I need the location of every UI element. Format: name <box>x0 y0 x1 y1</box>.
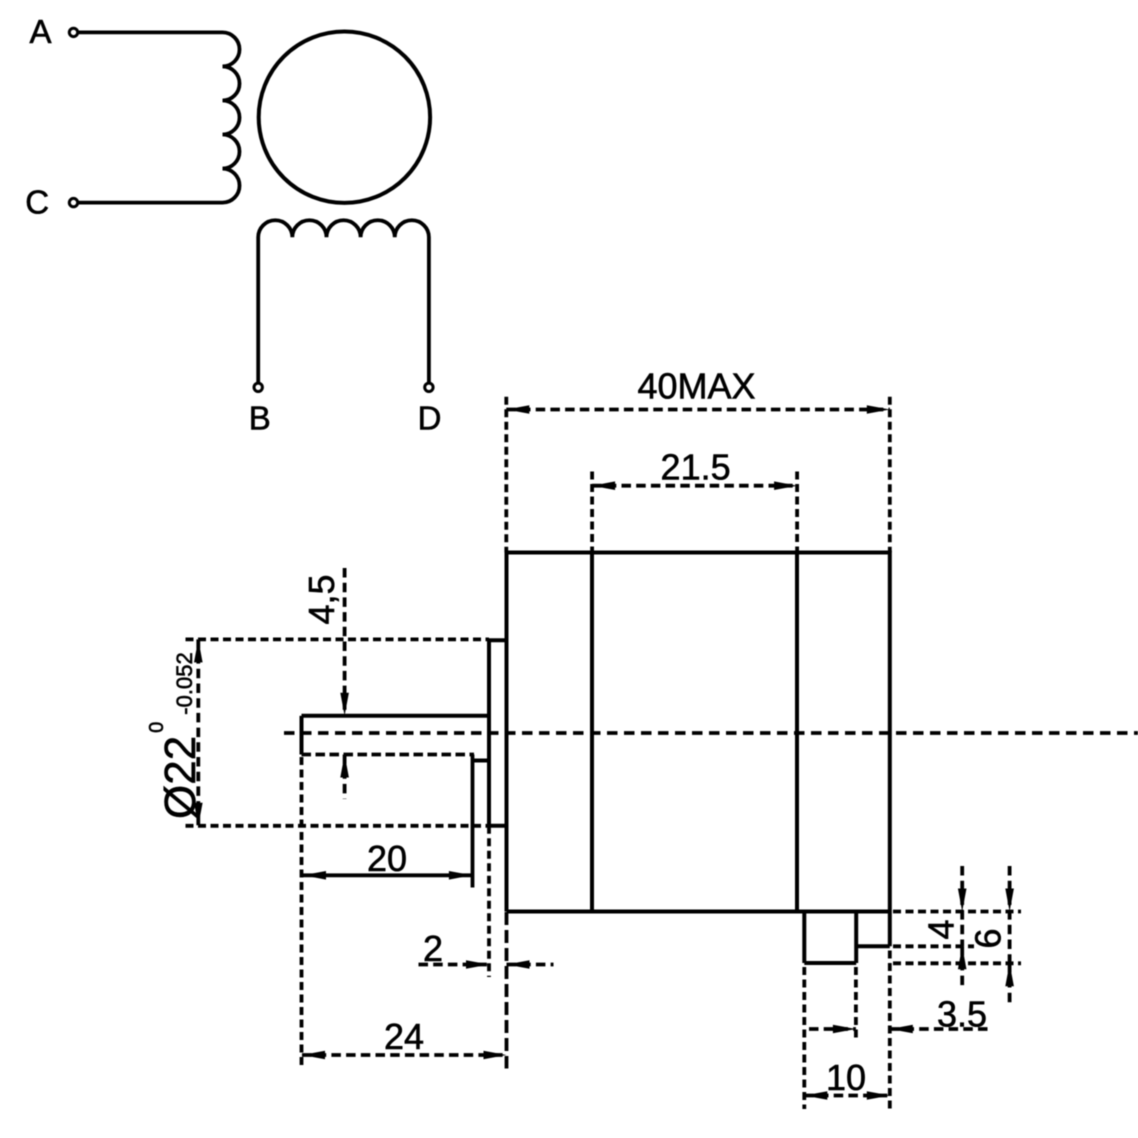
arrow 20 right <box>449 871 472 880</box>
arrow 3.5 right (points left) <box>890 1025 913 1034</box>
dim line 2 right tail <box>507 963 554 967</box>
dim line 10 <box>804 1094 890 1098</box>
dim line 3.5 left tail <box>809 1027 856 1031</box>
arrow 40MAX left <box>506 405 529 414</box>
arrow 2 right (points left) <box>507 960 530 969</box>
arrow 3.5 left (points right) <box>833 1025 856 1034</box>
arrow 6 up <box>1005 963 1014 986</box>
svg-text:2: 2 <box>423 928 443 969</box>
ext 40MAX left <box>504 397 508 553</box>
dim line 6 <box>1008 866 1012 963</box>
svg-text:24: 24 <box>384 1016 424 1057</box>
arrow 24 right <box>484 1051 507 1060</box>
rotor circle <box>259 32 430 203</box>
terminal B <box>254 383 262 391</box>
body stack line right <box>795 553 799 912</box>
arrow 20 left <box>303 871 326 880</box>
arrow 21.5 right <box>774 481 797 490</box>
ext 40MAX right <box>888 397 892 553</box>
ext 3.5 left <box>854 967 858 1042</box>
terminal tab right <box>854 912 858 964</box>
svg-text:20: 20 <box>367 838 407 879</box>
arrow 21.5 left <box>592 481 615 490</box>
arrow 2 left (points right) <box>466 960 489 969</box>
arrow 40MAX right <box>867 405 890 414</box>
ext tab bottom right <box>893 961 1021 965</box>
arrow 4 up <box>958 946 967 969</box>
svg-text:10: 10 <box>826 1057 866 1098</box>
ext 24/2 right <box>505 912 509 1069</box>
ext body bottom right <box>893 910 1021 914</box>
centerline (axis) <box>284 731 1138 735</box>
dim line 21.5 <box>592 484 797 488</box>
connector notch bottom <box>856 944 890 948</box>
svg-text:D: D <box>418 400 442 437</box>
ext 20 right (solid) <box>471 755 475 888</box>
arrow 10 left <box>804 1091 827 1100</box>
dim line 40MAX <box>506 408 890 412</box>
svg-text:4: 4 <box>921 919 962 939</box>
ext dia22 top <box>186 638 490 642</box>
arrow dia22 top <box>194 639 203 662</box>
arrow 6 down <box>1005 889 1014 912</box>
arrow 24 left <box>302 1051 325 1060</box>
dim line 4,5 upper tail <box>343 568 347 716</box>
shaft end face <box>300 716 304 755</box>
svg-text:3.5: 3.5 <box>937 994 987 1035</box>
ext notch right <box>893 944 974 948</box>
shaft bottom edge <box>473 759 490 763</box>
svg-text:4,5: 4,5 <box>301 574 342 624</box>
arrow dia22 bottom <box>194 803 203 826</box>
dim line 4,5 lower tail <box>343 755 347 800</box>
arrow 4,5 down <box>340 693 349 716</box>
svg-text:40MAX: 40MAX <box>637 366 755 407</box>
svg-text:6: 6 <box>968 928 1009 948</box>
dim line 4 <box>960 866 964 946</box>
svg-text:A: A <box>29 13 51 50</box>
ext dia22 bottom <box>186 824 490 828</box>
dim line dia22 <box>196 639 200 825</box>
ext 21.5 left <box>590 472 594 553</box>
svg-text:B: B <box>249 400 271 437</box>
boss bottom edge <box>489 824 507 828</box>
terminal A <box>69 28 77 36</box>
shaft top edge <box>302 714 490 718</box>
dim line 6 lower tail <box>1008 963 1012 1005</box>
arrow 10 right <box>867 1091 890 1100</box>
dim line 20 (solid) <box>303 873 472 877</box>
svg-text:C: C <box>25 183 49 220</box>
ext 2 left <box>487 826 491 977</box>
svg-text:21.5: 21.5 <box>661 447 731 488</box>
arrow 4 down <box>958 889 967 912</box>
motor body outline <box>507 553 890 947</box>
coil L2 (phase B-D winding) + vertical leads <box>258 220 429 383</box>
dim line 24 <box>302 1053 507 1057</box>
terminal tab left <box>802 912 806 964</box>
ext 10/3.5 right <box>888 951 892 1110</box>
hidden flat line on shaft <box>302 753 475 757</box>
terminal D <box>425 383 433 391</box>
boss top edge <box>489 638 507 642</box>
wire lead A + coil L1 (phase A-C winding) <box>79 32 240 202</box>
arrow 4,5 up <box>340 755 349 778</box>
ext 21.5 right <box>795 472 799 553</box>
ext 20/24 left <box>300 757 304 1069</box>
dim line 3.5 right tail <box>890 1027 990 1031</box>
body stack line left <box>590 553 594 912</box>
terminal C <box>69 198 77 206</box>
terminal tab bottom <box>804 961 856 965</box>
dim line 2 left tail <box>419 963 490 967</box>
pilot boss face <box>487 640 491 826</box>
ext 10 left <box>802 967 806 1109</box>
dim line 4 lower tail <box>960 946 964 990</box>
